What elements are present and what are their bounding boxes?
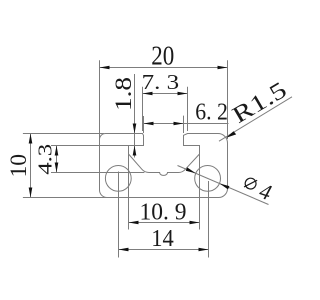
hole left (dia 4): [105, 166, 131, 192]
dim 4.3: extension line bottom (slot floor): [51, 172, 144, 174]
dim 10.9: dimension line: [129, 222, 200, 224]
svg-text:7. 3: 7. 3: [142, 70, 180, 94]
dim 6.2: arrow left: [144, 122, 154, 126]
dim 6.2: arrow right: [174, 122, 184, 126]
dim 7.3: dimension line: [143, 93, 188, 95]
dim 20: extension line left: [99, 60, 101, 139]
dim 14: arrow left: [119, 248, 129, 252]
dim R1.5: arrow (points at corner fillet): [226, 131, 236, 138]
dim 10: extension line bottom: [23, 197, 107, 199]
dim 1.8: dimension line upper segment: [134, 74, 136, 146]
dim 4.3: extension line top (slot lip bottom): [51, 145, 128, 147]
svg-text:6. 2: 6. 2: [195, 99, 228, 125]
dim 14: arrow right: [199, 248, 209, 252]
dim 1.8: dimension line lower segment: [134, 146, 136, 158]
profile outline (20x10 extrusion cross-section with top T-slot): [100, 134, 228, 198]
dim 7.3: extension line right: [187, 87, 189, 131]
dim 1.8: arrow top (points down to top surface): [133, 124, 137, 134]
dim 7.3: arrow right: [178, 92, 188, 96]
dim 7.3: extension line left: [142, 87, 144, 131]
svg-text:4.3: 4.3: [35, 144, 57, 175]
dim 6.2: dimension line with extension under text: [144, 123, 229, 125]
dim dia4: arrow lower-right (points at circle): [220, 184, 230, 190]
dim 20: arrow left: [100, 66, 110, 70]
dim dia4: diameter symbol: [244, 177, 258, 191]
svg-text:10: 10: [6, 154, 31, 178]
dim 7.3: arrow left: [143, 92, 153, 96]
svg-text:10. 9: 10. 9: [140, 199, 187, 225]
dim 20: extension line right: [227, 60, 229, 139]
svg-text:R1.5: R1.5: [228, 77, 291, 129]
dim 4.3: arrow top: [55, 146, 59, 156]
dim 10.9: arrow right: [190, 221, 200, 225]
dim 14: extension line right (from right hole center): [208, 181, 210, 258]
svg-text:14: 14: [151, 226, 174, 252]
dim 20: arrow right: [218, 66, 228, 70]
dim 10.9: arrow left: [129, 221, 139, 225]
dim 10: arrow top: [29, 134, 33, 144]
dim 20: dimension line: [100, 67, 228, 69]
dim 6.2: extension line right: [183, 116, 185, 133]
dim 10: extension line top: [23, 133, 104, 135]
hole right (dia 4): [195, 166, 221, 192]
dim 4.3: arrow bottom: [55, 163, 59, 173]
dim 14: extension line left (from left hole center): [118, 172, 120, 258]
dim 10.9: extension line right: [199, 155, 201, 230]
svg-text:4: 4: [256, 178, 274, 205]
svg-text:20: 20: [151, 41, 174, 71]
dim dia4: arrow upper-left (points at circle): [186, 167, 196, 173]
dim R1.5: leader line: [219, 97, 292, 141]
dim 6.2: extension line left: [143, 116, 145, 133]
svg-text:1.8: 1.8: [111, 77, 136, 111]
dim 10.9: extension line left: [128, 155, 130, 230]
dim 4.3: dimension line: [56, 146, 58, 173]
dim 1.8: arrow bottom (points up to slot lip bottom): [133, 146, 137, 156]
dim dia4: leader line through right hole: [178, 166, 269, 205]
dim 14: dimension line: [119, 249, 209, 251]
dim 10: dimension line: [30, 134, 32, 198]
dim 10: arrow bottom: [29, 188, 33, 198]
